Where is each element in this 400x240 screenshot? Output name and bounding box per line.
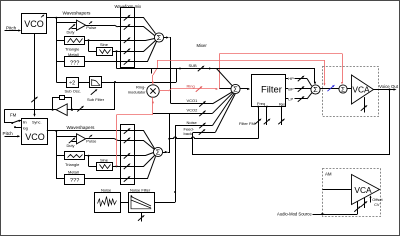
wire bus to pulse2 input: [56, 136, 76, 138]
ring level attenuator (red): [196, 87, 201, 92]
wire VCA gain control: [364, 97, 366, 112]
FM switch lever: [12, 120, 19, 123]
noise filter curve 2: [131, 200, 151, 208]
red wire ring mod output: [159, 90, 168, 92]
metall1 ??? box: [65, 57, 85, 67]
waveform mix2 group box: [121, 125, 135, 185]
LP attenuator: [298, 97, 303, 102]
wire BP stub: [286, 88, 289, 90]
duty2 attenuator: [69, 139, 74, 144]
svg-text:Ring: Ring: [187, 84, 195, 89]
wire noise to noise filter: [120, 202, 128, 204]
res attenuator: [278, 120, 283, 125]
wire duty1: [72, 28, 77, 30]
svg-text:VCA: VCA: [354, 185, 372, 195]
duty1 attenuator: [69, 25, 74, 30]
svg-text:CV: CV: [374, 202, 380, 207]
wire AM gain stub: [364, 198, 366, 208]
wire AM VCA input: [323, 189, 352, 191]
wire HP stub: [286, 78, 289, 80]
mix2 attenuator 4: [124, 165, 129, 170]
wire bus to metall2: [56, 178, 64, 180]
VCA amplifier triangle: [352, 75, 374, 104]
svg-text:Waveshapers: Waveshapers: [67, 125, 96, 130]
wire FM down-left: [5, 110, 12, 123]
wire noise filter cutoff: [141, 212, 143, 222]
red wire ring jog: [169, 89, 172, 91]
red wire ring top horizontal: [220, 53, 343, 55]
wire sub osc to sub filter: [78, 82, 89, 84]
svg-text:Σ: Σ: [341, 86, 345, 93]
wire sum4 to sum5: [320, 88, 339, 90]
AM gain attenuator: [361, 202, 366, 207]
svg-text:???: ???: [70, 61, 79, 67]
wire sub filter down to buffer: [114, 82, 116, 110]
wire BP: [295, 88, 311, 90]
feedback resistor: [60, 96, 65, 100]
wire AM audio input stub: [357, 201, 359, 214]
svg-text:Pitch: Pitch: [6, 25, 17, 30]
wire pitch1 to VCO1: [5, 30, 21, 32]
svg-text:Sub Filter: Sub Filter: [87, 97, 105, 102]
blue VCA drive attenuator: [327, 86, 333, 91]
svg-text:lin: lin: [23, 120, 27, 124]
waveshaper bank2 bus: [56, 131, 58, 179]
svg-text:Metall: Metall: [68, 169, 79, 174]
svg-text:÷2: ÷2: [69, 81, 75, 87]
wire metall2 to mix2: [85, 178, 134, 180]
wire sine1 tap down to ring mod: [116, 51, 118, 68]
wire switch to lin: [19, 120, 21, 122]
wire feedback mixer line: [193, 132, 216, 134]
wire pulse2 jog: [115, 139, 118, 141]
wire VCO2 to filter FM: [169, 137, 258, 139]
wire buffer input from sub filter: [67, 109, 115, 111]
noise filter box: [129, 193, 155, 213]
comparator pulse2: [77, 134, 86, 144]
red wire down to post-filter node: [324, 60, 326, 84]
sub filter cutoff attenuator: [91, 90, 96, 95]
svg-text:Res: Res: [279, 101, 286, 106]
triangle1 wave glyph: [68, 39, 83, 43]
red wire ring mod bottom input: [152, 97, 154, 115]
wire mix1-2 to sum1: [135, 27, 155, 36]
ring mod X glyph 1: [150, 88, 155, 93]
wire voice out feedback loop: [193, 90, 390, 155]
wire mix2-5 to sum2: [135, 157, 156, 179]
wire sine1 to mix: [113, 51, 135, 53]
wire pulse1 jog: [115, 25, 118, 27]
wire sum1 output: [164, 37, 168, 39]
wire pitch2 to VCO2: [5, 136, 20, 138]
wire ring node into sum3: [220, 88, 231, 90]
red wire ring up: [219, 54, 221, 90]
wire sum2 up to VCO2 mixer input: [168, 114, 170, 153]
buffer input attenuator: [77, 107, 82, 112]
wire VCO1 diagonal to sum3: [213, 92, 232, 104]
svg-text:modulator: modulator: [128, 90, 146, 95]
wire mix1-1 to sum1: [135, 18, 156, 34]
noise filter axes: [131, 195, 151, 209]
VCO1 mod arrow: [41, 15, 44, 17]
wire VCO1 output: [47, 17, 57, 19]
filter box: [252, 75, 286, 107]
sub filter box: [90, 77, 102, 88]
sine1 wave glyph: [100, 50, 111, 54]
wire noise up to mixer: [175, 126, 177, 203]
svg-text:Ring-: Ring-: [136, 84, 146, 89]
svg-text:Sub Osc.: Sub Osc.: [65, 88, 81, 93]
noise level attenuator: [199, 124, 204, 129]
VCO2 level attenuator: [199, 112, 204, 117]
wire HP diagonal to sum4: [307, 79, 312, 87]
svg-text:Pulse: Pulse: [86, 25, 97, 30]
sine2 shaper box: [97, 163, 113, 171]
svg-text:Filter: Filter: [261, 83, 282, 94]
wire voice out: [374, 89, 396, 91]
VCO1 oscillator box: [22, 14, 47, 34]
wire VCO1 sync down to VCO2: [34, 34, 36, 116]
svg-text:Pitch: Pitch: [3, 131, 14, 136]
pulse2 mod arrow: [89, 135, 92, 137]
red wire ring down to sum5: [342, 54, 344, 83]
wire mix1-5 to sum1: [135, 42, 157, 62]
svg-text:VCO1: VCO1: [187, 98, 199, 103]
svg-text:Duty: Duty: [67, 143, 75, 148]
svg-text:Sine: Sine: [100, 42, 109, 47]
filter FM attenuator: [255, 120, 260, 125]
svg-text:HP: HP: [288, 76, 294, 81]
ring mod X glyph 2: [150, 88, 155, 93]
wire VCO2 diagonal to sum3: [213, 93, 233, 114]
svg-text:back: back: [184, 131, 192, 136]
svg-text:BP: BP: [288, 87, 294, 92]
svg-text:Mixer: Mixer: [197, 43, 208, 48]
wire mix2-4 to sum2: [135, 156, 155, 167]
svg-text:VCO: VCO: [25, 132, 45, 142]
svg-text:Σ: Σ: [313, 85, 318, 94]
wire LP: [295, 98, 308, 100]
VCA dashed group box: [323, 67, 379, 117]
svg-text:???: ???: [70, 178, 79, 184]
buffer amp (left pointing): [56, 104, 67, 116]
noise source box: [95, 193, 121, 213]
svg-text:VCO2: VCO2: [187, 108, 199, 113]
post-filter summer sigma4: [311, 85, 320, 94]
sync attenuator: [31, 98, 36, 103]
wire SUB down to post-filter sum4: [314, 69, 316, 84]
wire sum1 down to VCO1 mixer input: [170, 38, 171, 104]
wire noise filter out: [154, 202, 175, 204]
wire sum3 to filter: [240, 88, 249, 90]
svg-text:Sync.: Sync.: [32, 120, 42, 124]
svg-text:Duty: Duty: [67, 29, 75, 34]
svg-text:log: log: [23, 127, 28, 131]
wire bus to triangle2: [56, 155, 64, 157]
AM audio attenuator: [354, 207, 359, 212]
wire mix2-2 to sum2: [135, 141, 155, 150]
svg-text:Freq: Freq: [257, 101, 265, 106]
noise filter curve 1: [131, 197, 151, 207]
sub filter axes: [92, 79, 100, 86]
wire filter FM up into filter: [258, 107, 260, 139]
svg-text:Triangle: Triangle: [65, 46, 80, 51]
wire bus to pulse1 input: [56, 22, 76, 24]
svg-text:AM: AM: [325, 171, 332, 176]
wire sum2 output: [163, 152, 167, 154]
pre-VCA summer sigma5: [339, 85, 347, 93]
wire bus to metall1: [56, 61, 64, 63]
svg-text:Waveshapers: Waveshapers: [63, 10, 92, 15]
wire pulse1 to mix: [118, 26, 135, 28]
svg-text:Noise Filter: Noise Filter: [130, 188, 151, 193]
wire feedback diagonal to sum3: [216, 94, 236, 132]
red wire diagonal: [153, 68, 157, 75]
wire mix2-1 to sum2: [135, 131, 155, 149]
svg-text:Σ: Σ: [157, 33, 162, 42]
wire triangle2 to sine2: [88, 156, 90, 167]
wire mix1-4 to sum1: [135, 41, 156, 52]
mix2 attenuator 2: [124, 139, 129, 144]
mixer summer sigma3: [231, 84, 240, 93]
wire sum5 to VCA: [347, 88, 351, 90]
ring modulator circle: [147, 85, 159, 97]
svg-text:Pulse: Pulse: [86, 139, 97, 144]
wire noise mixer line: [175, 125, 212, 127]
red wire horizontal to sine2 column: [117, 114, 154, 116]
summer sigma1 (waveform mix 1): [154, 33, 163, 42]
pulse1 mod arrow: [89, 22, 92, 24]
waveform mix1 group box: [121, 8, 135, 68]
wire audio-mod source: [313, 214, 358, 216]
freq attenuator: [264, 120, 269, 125]
svg-text:Sine: Sine: [100, 157, 109, 162]
svg-text:Filter FM: Filter FM: [239, 121, 255, 126]
BP attenuator: [298, 87, 303, 92]
wire sub to SUB mixer line: [176, 69, 178, 82]
triangle1 shaper box: [65, 37, 85, 45]
sine2 wave glyph: [100, 165, 111, 169]
wire VCO2 mixer line: [153, 113, 213, 115]
triangle2 wave glyph: [68, 155, 83, 158]
wire VCO1 direct to waveform mix: [56, 17, 134, 19]
svg-text:Σ: Σ: [156, 148, 161, 157]
svg-text:Noise: Noise: [187, 120, 198, 125]
svg-text:Waveform mix: Waveform mix: [115, 4, 143, 9]
mix1 attenuator 1: [124, 16, 129, 21]
wire noise diagonal to sum3: [213, 94, 234, 126]
mix2 attenuator 3: [124, 154, 129, 159]
AM dashed group box: [323, 169, 381, 217]
svg-text:VCO: VCO: [24, 19, 44, 29]
wire metall1 to mix: [85, 61, 134, 63]
VCO1 level attenuator: [199, 102, 204, 107]
VCA gain attenuator: [361, 106, 366, 111]
noise wave glyph: [98, 197, 117, 207]
wire pulse2 to mix2: [118, 140, 135, 142]
wire triangle2 to mix2: [85, 155, 134, 157]
svg-text:Voice Out: Voice Out: [379, 84, 399, 89]
divider /2 sub osc box: [67, 78, 79, 88]
wire pulse2 out: [86, 138, 115, 140]
svg-text:Triangle: Triangle: [65, 162, 80, 167]
svg-text:Noise: Noise: [101, 188, 112, 193]
svg-text:Audio-Mod Source: Audio-Mod Source: [277, 212, 312, 217]
wire bus to triangle1: [56, 40, 64, 42]
svg-text:LP: LP: [288, 97, 293, 102]
mix2 attenuator 1: [124, 129, 129, 134]
wire LP diagonal to sum4: [307, 93, 312, 99]
feedback level attenuator: [199, 130, 204, 135]
wire pulse1 out: [86, 25, 115, 27]
wire mix1-3 to sum1: [135, 39, 155, 41]
red wire ring to attenuator: [171, 88, 217, 90]
wire triangle1 to sine1: [88, 40, 90, 51]
SUB attenuator: [198, 67, 203, 72]
wire mix2-3 to sum2: [135, 153, 154, 156]
wire triangle1 to mix: [85, 40, 134, 42]
wire sub filter output: [102, 82, 176, 84]
wire SUB line: [117, 68, 316, 70]
metall2 ??? box: [65, 175, 85, 185]
wire VCO1 mixer line: [171, 103, 213, 105]
wire VCO2 output: [47, 130, 57, 132]
sine1 shaper box: [97, 48, 113, 56]
svg-text:VCA: VCA: [352, 85, 370, 95]
wire feedback left: [53, 98, 60, 110]
sub filter curve: [92, 80, 101, 85]
wire bus to sub osc: [56, 82, 66, 84]
wire buffer output to FM: [4, 109, 56, 111]
red wire vertical: [157, 60, 159, 68]
mix1 attenuator 2: [124, 25, 129, 30]
mix1 attenuator 4: [124, 49, 129, 54]
wire feedback right: [65, 98, 72, 110]
triangle2 shaper box: [65, 152, 85, 160]
wire LP stub: [286, 98, 289, 100]
red wire long horizontal to VCA section: [157, 60, 324, 62]
wire SUB diagonal to mixer sum3: [217, 69, 233, 86]
red wire down to sine2 output: [116, 115, 118, 167]
waveshaper bank1 bus: [56, 18, 58, 82]
mix1 attenuator 5: [124, 60, 129, 65]
HP attenuator: [298, 77, 303, 82]
wire freq control: [266, 107, 268, 126]
AM VCA amplifier triangle: [352, 175, 380, 205]
wire offset CV stub: [370, 196, 372, 202]
wire sine1 tap horizontal: [117, 68, 152, 70]
wire VCO2 direct to waveform mix2: [56, 130, 134, 132]
mix1 attenuator 3: [124, 38, 129, 43]
svg-text:Σ: Σ: [233, 85, 238, 94]
wire res control: [281, 107, 283, 126]
summer sigma2 (waveform mix 2): [153, 147, 162, 156]
wire sine2 to mix2: [113, 166, 135, 168]
red wire into ring mod top: [152, 75, 154, 84]
wire HP: [295, 78, 308, 80]
wire sine1 tap down hook: [151, 68, 153, 73]
VCO2 oscillator box: [22, 119, 48, 145]
comparator pulse1: [77, 20, 86, 30]
wire duty2: [72, 141, 77, 143]
noise filter cutoff attenuator: [138, 216, 143, 221]
svg-text:SUB: SUB: [189, 63, 198, 68]
svg-text:FM: FM: [10, 113, 17, 118]
mix2 attenuator 5: [124, 177, 129, 182]
wire log stub: [15, 127, 21, 129]
